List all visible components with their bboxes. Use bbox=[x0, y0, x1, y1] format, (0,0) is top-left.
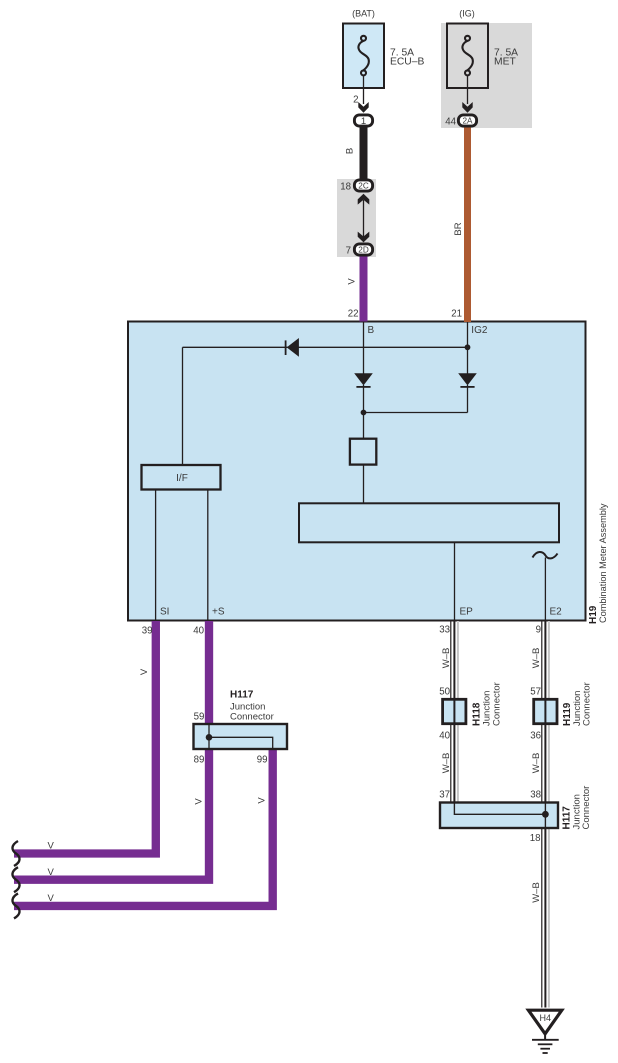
svg-text:57: 57 bbox=[530, 686, 541, 697]
svg-text:EP: EP bbox=[460, 607, 474, 618]
svg-text:59: 59 bbox=[194, 712, 205, 723]
svg-text:Combination Meter Assembly: Combination Meter Assembly bbox=[598, 503, 608, 623]
svg-text:44: 44 bbox=[445, 116, 456, 127]
svg-text:W–B: W–B bbox=[531, 753, 542, 774]
svg-text:39: 39 bbox=[142, 626, 153, 637]
svg-text:38: 38 bbox=[530, 789, 541, 800]
svg-text:89: 89 bbox=[194, 755, 205, 766]
svg-text:IG2: IG2 bbox=[471, 325, 488, 336]
svg-text:W–B: W–B bbox=[531, 648, 542, 669]
svg-text:1: 1 bbox=[361, 116, 366, 127]
svg-text:W–B: W–B bbox=[441, 648, 452, 669]
svg-text:2A: 2A bbox=[462, 117, 473, 126]
svg-text:BR: BR bbox=[453, 222, 464, 235]
svg-text:2C: 2C bbox=[358, 182, 369, 191]
svg-text:18: 18 bbox=[340, 181, 351, 192]
svg-text:22: 22 bbox=[348, 309, 359, 320]
svg-text:MET: MET bbox=[494, 57, 516, 68]
svg-text:V: V bbox=[48, 841, 55, 852]
svg-text:37: 37 bbox=[439, 789, 450, 800]
svg-text:(IG): (IG) bbox=[459, 9, 475, 19]
svg-text:Connector: Connector bbox=[581, 786, 592, 830]
svg-text:W–B: W–B bbox=[441, 753, 452, 774]
svg-text:I/F: I/F bbox=[176, 473, 188, 484]
svg-text:40: 40 bbox=[193, 626, 204, 637]
svg-text:B: B bbox=[368, 325, 375, 336]
svg-text:V: V bbox=[194, 798, 205, 805]
svg-text:H117: H117 bbox=[230, 690, 254, 701]
svg-text:Connector: Connector bbox=[492, 682, 503, 726]
svg-text:21: 21 bbox=[451, 309, 462, 320]
svg-text:V: V bbox=[48, 867, 55, 878]
svg-text:+S: +S bbox=[212, 607, 225, 618]
svg-text:50: 50 bbox=[439, 686, 450, 697]
svg-text:ECU–B: ECU–B bbox=[390, 57, 424, 68]
svg-text:99: 99 bbox=[257, 755, 268, 766]
svg-text:V: V bbox=[139, 668, 150, 675]
svg-text:E2: E2 bbox=[550, 607, 563, 618]
svg-text:SI: SI bbox=[160, 607, 169, 618]
svg-text:H4: H4 bbox=[540, 1013, 552, 1023]
svg-text:9: 9 bbox=[536, 624, 541, 635]
svg-text:Connector: Connector bbox=[582, 682, 593, 726]
svg-text:Connector: Connector bbox=[230, 711, 274, 722]
svg-text:V: V bbox=[257, 797, 268, 804]
svg-text:7: 7 bbox=[346, 245, 351, 256]
svg-text:2D: 2D bbox=[358, 246, 369, 255]
svg-text:36: 36 bbox=[530, 730, 541, 741]
svg-text:18: 18 bbox=[530, 833, 541, 844]
svg-text:33: 33 bbox=[439, 624, 450, 635]
svg-text:V: V bbox=[48, 893, 55, 904]
svg-text:40: 40 bbox=[439, 730, 450, 741]
svg-text:B: B bbox=[345, 148, 356, 154]
svg-text:(BAT): (BAT) bbox=[352, 9, 375, 19]
svg-text:V: V bbox=[347, 278, 358, 285]
svg-text:2: 2 bbox=[353, 95, 358, 106]
svg-text:W–B: W–B bbox=[531, 882, 542, 903]
